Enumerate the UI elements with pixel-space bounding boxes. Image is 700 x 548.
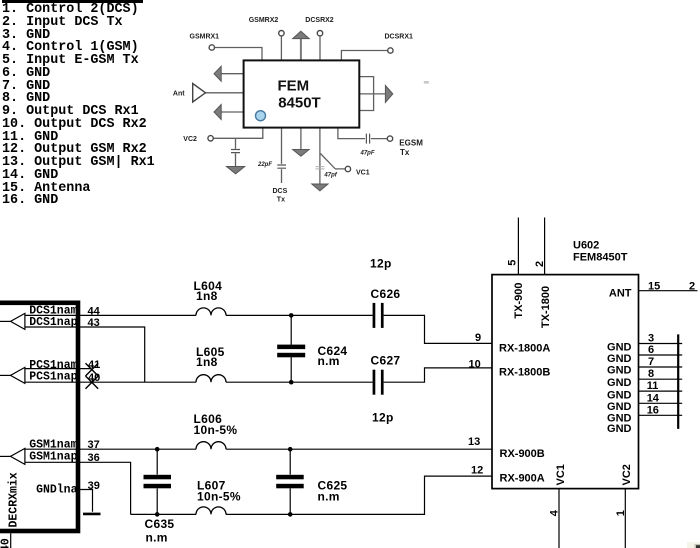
svg-text:12: 12 [471, 465, 483, 477]
svg-text:GSM1nap: GSM1nap [29, 451, 77, 464]
svg-text:8450T: 8450T [278, 95, 321, 112]
svg-text:5: 5 [507, 260, 519, 266]
svg-text:RX-1800B: RX-1800B [499, 367, 550, 379]
svg-text:C626: C626 [371, 287, 401, 301]
svg-text:TX-1800: TX-1800 [540, 286, 552, 328]
svg-text:11: 11 [647, 380, 659, 392]
svg-text:36: 36 [88, 452, 100, 464]
svg-text:TX-900: TX-900 [513, 283, 525, 319]
svg-text:12p: 12p [372, 411, 394, 425]
svg-text:16: 16 [647, 404, 659, 416]
svg-text:ANT: ANT [609, 288, 632, 300]
svg-text:PCS1nap: PCS1nap [29, 371, 77, 384]
svg-text:Tx: Tx [400, 148, 410, 157]
svg-text:DCSRX1: DCSRX1 [385, 34, 414, 41]
svg-text:10: 10 [469, 358, 481, 370]
svg-text:DCSRX2: DCSRX2 [305, 17, 334, 24]
svg-text:C635: C635 [145, 517, 175, 531]
svg-text:n.m: n.m [318, 490, 340, 504]
svg-text:10n-5%: 10n-5% [194, 423, 238, 437]
svg-text:3: 3 [648, 333, 654, 345]
svg-text:GND: GND [607, 401, 632, 413]
svg-text:47pF: 47pF [360, 151, 375, 157]
svg-text:DCS: DCS [273, 188, 288, 195]
svg-text:RX-1800A: RX-1800A [499, 343, 550, 355]
svg-text:22pF: 22pF [257, 162, 272, 168]
svg-text:47pf: 47pf [323, 172, 337, 178]
svg-text:n.m: n.m [146, 531, 168, 545]
svg-text:GSMRX1: GSMRX1 [190, 34, 220, 41]
svg-text:DECRXmix: DECRXmix [7, 472, 20, 527]
svg-text:8: 8 [648, 368, 654, 380]
svg-text:37: 37 [88, 439, 100, 451]
svg-text:n.m: n.m [318, 354, 340, 368]
svg-text:RX-900B: RX-900B [500, 448, 545, 460]
svg-text:6: 6 [648, 344, 654, 356]
svg-text:7: 7 [648, 356, 654, 368]
svg-text:VC1: VC1 [555, 464, 567, 485]
svg-text:13: 13 [468, 436, 480, 448]
svg-text:14: 14 [647, 392, 660, 404]
svg-text:Tx: Tx [277, 197, 285, 204]
svg-text:1n8: 1n8 [196, 355, 218, 369]
svg-text:GSM1nam: GSM1nam [29, 439, 77, 452]
svg-text:40: 40 [0, 538, 12, 548]
svg-text:Ant: Ant [173, 91, 185, 98]
svg-text:10n-5%: 10n-5% [197, 490, 241, 504]
svg-text:4: 4 [548, 509, 560, 516]
svg-text:U602: U602 [573, 240, 599, 252]
svg-text:GNDlna: GNDlna [36, 484, 78, 497]
svg-text:FEM8450T: FEM8450T [573, 252, 628, 264]
svg-text:39: 39 [88, 480, 100, 492]
svg-text:EGSM: EGSM [399, 138, 423, 147]
svg-text:VC2: VC2 [621, 464, 633, 485]
svg-text:2: 2 [689, 281, 695, 293]
svg-text:C627: C627 [371, 354, 401, 368]
svg-text:DCS1nap: DCS1nap [29, 316, 77, 329]
svg-text:1: 1 [615, 510, 627, 516]
svg-text:GND: GND [607, 423, 632, 435]
svg-text:FEM: FEM [278, 78, 310, 95]
svg-text:15: 15 [648, 281, 660, 293]
svg-text:1n8: 1n8 [196, 289, 218, 303]
svg-text:2: 2 [534, 261, 546, 267]
svg-text:43: 43 [88, 317, 100, 329]
svg-text:40: 40 [88, 372, 100, 384]
svg-text:9: 9 [475, 332, 481, 344]
svg-text:VC1: VC1 [356, 170, 370, 177]
svg-text:GND: GND [607, 353, 632, 365]
svg-text:12p: 12p [370, 257, 392, 271]
svg-text:GND: GND [607, 341, 632, 353]
svg-text:44: 44 [88, 306, 101, 318]
svg-text:41: 41 [88, 359, 100, 371]
svg-text:GND: GND [607, 364, 632, 376]
svg-text:RX-900A: RX-900A [500, 473, 545, 485]
svg-text:VC2: VC2 [183, 136, 197, 143]
svg-text:GND: GND [607, 390, 632, 402]
svg-text:GSMRX2: GSMRX2 [249, 17, 279, 24]
svg-text:GND: GND [607, 377, 632, 389]
